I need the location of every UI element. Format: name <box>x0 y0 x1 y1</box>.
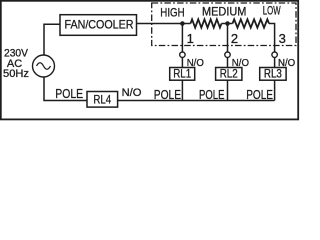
svg-text:3: 3 <box>279 31 286 46</box>
svg-text:POLE: POLE <box>199 87 225 102</box>
svg-text:POLE: POLE <box>55 86 83 101</box>
svg-text:POLE: POLE <box>246 87 273 102</box>
svg-text:MEDIUM: MEDIUM <box>202 4 246 18</box>
svg-text:RL2: RL2 <box>220 68 238 80</box>
svg-text:FAN/COOLER: FAN/COOLER <box>65 18 134 32</box>
svg-text:N/O: N/O <box>278 57 295 69</box>
svg-text:RL1: RL1 <box>173 68 191 80</box>
svg-text:2: 2 <box>231 31 238 46</box>
svg-text:N/O: N/O <box>187 57 204 69</box>
svg-text:50Hz: 50Hz <box>3 68 29 80</box>
svg-text:N/O: N/O <box>122 87 142 99</box>
svg-text:POLE: POLE <box>154 87 181 102</box>
svg-text:N/O: N/O <box>232 57 249 69</box>
svg-text:RL4: RL4 <box>93 92 111 106</box>
svg-text:RL3: RL3 <box>264 68 282 80</box>
svg-text:HIGH: HIGH <box>160 6 184 20</box>
svg-text:1: 1 <box>187 31 194 46</box>
svg-text:LOW: LOW <box>263 4 281 18</box>
